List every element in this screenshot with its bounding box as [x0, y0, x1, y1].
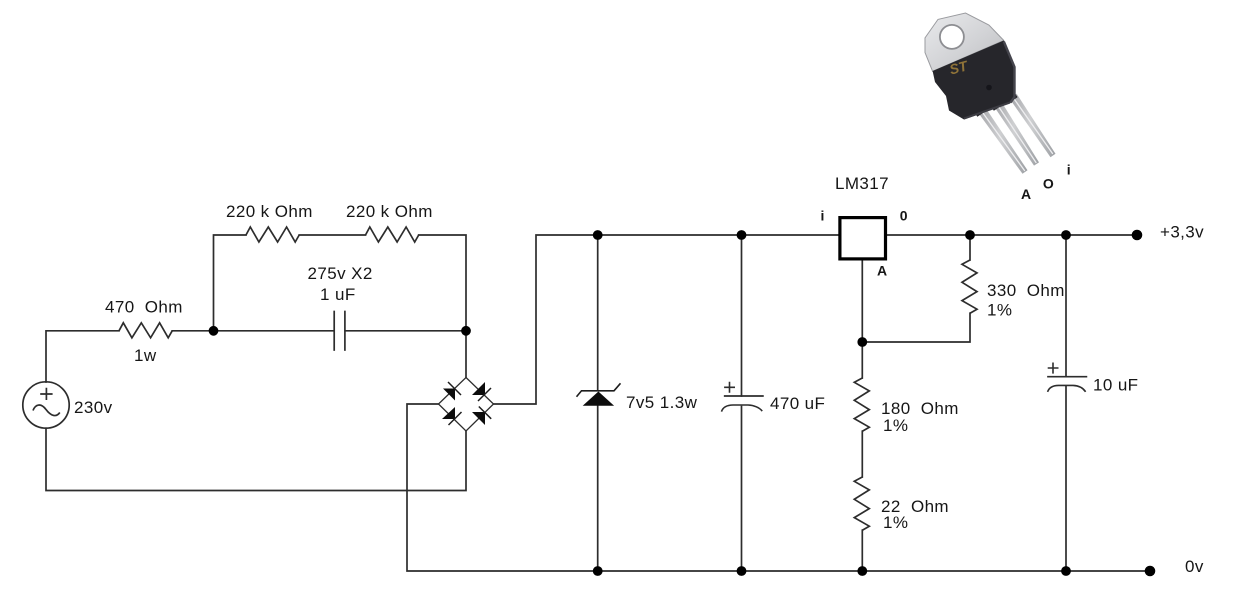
svg-text:230v: 230v [74, 398, 113, 417]
svg-text:0: 0 [900, 208, 908, 224]
svg-text:220 k Ohm: 220 k Ohm [346, 202, 433, 221]
svg-text:7v5 1.3w: 7v5 1.3w [626, 393, 698, 412]
svg-text:470 uF: 470 uF [770, 394, 825, 413]
svg-text:LM317: LM317 [835, 174, 889, 193]
svg-text:+3,3v: +3,3v [1160, 223, 1204, 242]
svg-text:i: i [821, 208, 825, 224]
svg-text:1w: 1w [134, 346, 157, 365]
svg-text:A: A [877, 263, 887, 279]
svg-text:1%: 1% [883, 416, 908, 435]
svg-text:275v X2: 275v X2 [308, 264, 373, 283]
svg-text:A: A [1021, 186, 1031, 202]
svg-text:O: O [1043, 176, 1054, 192]
svg-text:i: i [1067, 162, 1071, 178]
svg-text:470 Ohm: 470 Ohm [105, 298, 183, 317]
svg-text:220 k Ohm: 220 k Ohm [226, 202, 313, 221]
svg-text:1 uF: 1 uF [320, 285, 356, 304]
svg-text:0v: 0v [1185, 557, 1204, 576]
svg-text:10 uF: 10 uF [1093, 376, 1138, 395]
svg-text:1%: 1% [883, 513, 908, 532]
svg-text:330 Ohm: 330 Ohm [987, 281, 1065, 300]
svg-text:1%: 1% [987, 301, 1012, 320]
